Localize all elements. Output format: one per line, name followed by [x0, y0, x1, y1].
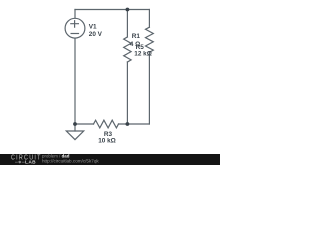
wire right branch bottom — [148, 52, 150, 124]
watermark bar — [0, 154, 220, 165]
wire V1 top stem — [74, 10, 76, 19]
node dot bottom left — [73, 122, 77, 126]
watermark logo CIRCUIT LAB — [11, 154, 42, 162]
node dot bottom middle — [126, 122, 130, 126]
svg-text:10 kΩ: 10 kΩ — [98, 138, 116, 145]
node dot top — [126, 8, 130, 12]
wire middle branch bottom — [126, 62, 128, 124]
resistor R1 zigzag — [124, 37, 131, 62]
wire top rail — [75, 9, 149, 11]
svg-text:V1: V1 — [89, 24, 97, 31]
svg-text:R1: R1 — [132, 33, 141, 40]
resistor R5 zigzag — [146, 27, 154, 52]
svg-text:12 kΩ: 12 kΩ — [134, 51, 152, 58]
resistor R3 zigzag — [94, 120, 119, 128]
wire bottom rail right — [119, 123, 150, 125]
wire right branch top — [148, 10, 150, 28]
watermark text line 2 — [42, 159, 99, 164]
wire bottom rail left — [75, 123, 94, 125]
svg-text:20 V: 20 V — [89, 31, 103, 38]
wire V1 bottom stem — [74, 38, 76, 124]
ground triangle — [66, 131, 83, 140]
ground stem — [74, 124, 76, 131]
watermark text line 1 — [42, 154, 69, 158]
voltage source V1 — [65, 18, 85, 38]
wire middle branch top — [126, 10, 128, 38]
